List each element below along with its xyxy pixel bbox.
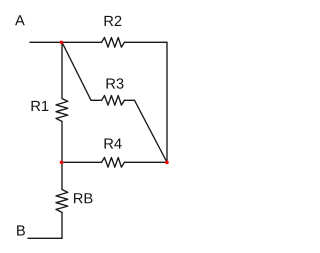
- wire R3 left lead: [91, 99, 102, 101]
- value label R1: [32, 101, 49, 111]
- wire from terminal A to junction node: [30, 41, 62, 43]
- junction dot at lower-right node: [165, 161, 169, 165]
- value label R4: [105, 138, 122, 148]
- wire R3 right lead: [124, 99, 134, 101]
- wire bottom horizontal to terminal B: [28, 237, 62, 239]
- resistor R2: [102, 38, 125, 48]
- resistor RB: [56, 190, 68, 213]
- value label R3: [107, 78, 124, 88]
- junction dot at node A rail: [60, 41, 64, 45]
- value label R2: [105, 16, 122, 26]
- node label A: [15, 15, 25, 25]
- wire lower-left junction to R4 left lead: [62, 161, 102, 163]
- node label B: [17, 225, 25, 235]
- wire diagonal from junction to R3: [62, 42, 91, 100]
- wire R1 down to lower-left junction: [61, 121, 63, 162]
- resistor R4: [102, 158, 125, 168]
- wire R2 right lead to top-right corner: [124, 41, 167, 43]
- resistor R3: [102, 96, 125, 106]
- wire diagonal from R3 to lower-right junction: [135, 100, 168, 162]
- wire lower-left junction down to RB: [61, 162, 63, 189]
- value label RB: [74, 193, 92, 203]
- wire R4 right lead to lower-right junction: [124, 161, 167, 163]
- wire RB down to bottom corner: [61, 212, 63, 238]
- resistor R1: [56, 99, 68, 122]
- wire junction down to R1: [61, 42, 63, 98]
- junction dot at lower-left node: [60, 161, 64, 165]
- wire junction to R2 left lead: [62, 41, 102, 43]
- wire right vertical branch: [166, 42, 168, 162]
